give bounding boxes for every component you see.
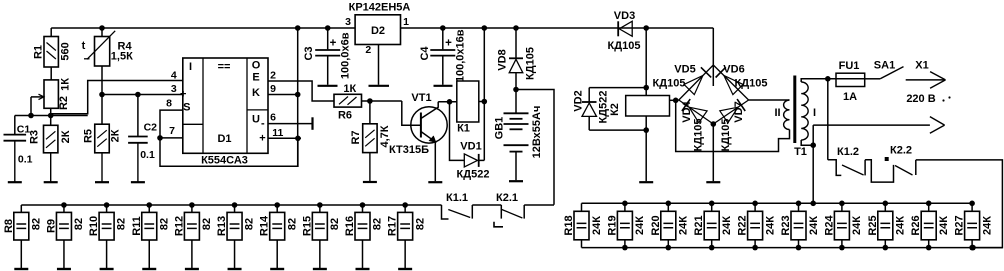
node R22 top junction bbox=[752, 201, 758, 207]
wire R2/R3 node horizontal bbox=[15, 115, 88, 117]
svg-text:К554СА3: К554СА3 bbox=[201, 155, 248, 167]
switch SA1 bbox=[880, 67, 903, 79]
svg-text:24К: 24К bbox=[851, 216, 863, 235]
svg-text:0.1: 0.1 bbox=[18, 154, 33, 166]
node R4/R5 junction bbox=[99, 92, 105, 98]
transformer T1 winding II bbox=[784, 100, 790, 130]
node R19 bottom junction bbox=[622, 245, 628, 251]
node R9 top junction bbox=[61, 202, 67, 208]
svg-text:2К: 2К bbox=[60, 130, 72, 143]
resistor R19 bbox=[624, 203, 626, 211]
transformer T1 core bbox=[793, 76, 796, 144]
ground C1 bbox=[14, 142, 16, 183]
svg-text:1А: 1А bbox=[843, 91, 857, 103]
node R27 bottom junction bbox=[969, 245, 975, 251]
wire top bus D2-to-VD3 segment bbox=[401, 27, 619, 29]
svg-text:24К: 24К bbox=[721, 216, 733, 235]
node R24 bottom junction bbox=[839, 245, 845, 251]
resistor R11 bbox=[148, 205, 150, 212]
svg-text:КД105: КД105 bbox=[608, 40, 641, 52]
svg-text:24К: 24К bbox=[591, 216, 603, 235]
wire VT1 emitter down bbox=[434, 142, 436, 181]
svg-text:VD7: VD7 bbox=[733, 101, 745, 122]
ground R9 bbox=[57, 268, 71, 270]
svg-text:КД105: КД105 bbox=[524, 47, 536, 80]
wire pin 2 E to R6 bbox=[268, 81, 334, 101]
wire R2 bottom to R3 bbox=[50, 108, 52, 125]
svg-text:K: K bbox=[252, 87, 260, 99]
svg-text:К1.2: К1.2 bbox=[837, 146, 859, 158]
resistor R21 bbox=[711, 203, 713, 211]
capacitor C2 bbox=[137, 95, 139, 136]
svg-text:3: 3 bbox=[171, 83, 177, 95]
transistor VT1 collector bbox=[421, 102, 438, 119]
node R20 bottom junction bbox=[666, 245, 672, 251]
transistor VT1 emitter bbox=[421, 132, 435, 142]
node VD2 bottom junction bbox=[643, 127, 649, 133]
node R16 top junction bbox=[360, 202, 366, 208]
resistor R14 bbox=[276, 205, 278, 212]
svg-text:7: 7 bbox=[169, 125, 175, 137]
resistor R25 bbox=[884, 203, 886, 211]
svg-text:8: 8 bbox=[166, 98, 172, 110]
svg-text:100,0х16в: 100,0х16в bbox=[454, 29, 466, 82]
svg-text:КТ315Б: КТ315Б bbox=[389, 144, 429, 156]
svg-text:U: U bbox=[252, 114, 260, 126]
node R23 top junction bbox=[796, 201, 802, 207]
svg-text:+: + bbox=[330, 37, 337, 49]
wire pin 9 K bbox=[268, 94, 298, 96]
wire load bank top bus bbox=[582, 202, 974, 204]
wire K2 to bridge left bbox=[670, 99, 679, 101]
node VD2 top junction bbox=[643, 85, 649, 91]
svg-text:GB1: GB1 bbox=[493, 117, 505, 140]
ground R13 bbox=[228, 268, 242, 270]
fuse FU1 bbox=[836, 73, 865, 86]
wire VD3 out to K2 down bbox=[645, 28, 647, 96]
ground GB1 bbox=[509, 180, 523, 182]
svg-text:+: + bbox=[180, 89, 186, 101]
wire K1 right bbox=[479, 101, 485, 103]
wire bridge top riser bbox=[712, 28, 714, 86]
svg-text:C2: C2 bbox=[144, 122, 158, 134]
svg-text:==: == bbox=[218, 61, 231, 73]
svg-text:82: 82 bbox=[158, 218, 170, 230]
ground pin 6 bar bbox=[311, 117, 313, 130]
connector X1 upper arrow bbox=[906, 79, 945, 81]
ground C2 bbox=[137, 144, 139, 183]
ground C3 bbox=[327, 56, 329, 85]
svg-text:220 В: 220 В bbox=[906, 93, 935, 105]
ground R7 bbox=[369, 153, 371, 182]
svg-text:O: O bbox=[252, 60, 261, 72]
svg-text:R11: R11 bbox=[131, 216, 143, 236]
svg-text:C3: C3 bbox=[303, 46, 315, 60]
svg-text:К2: К2 bbox=[609, 103, 621, 116]
svg-text:R13: R13 bbox=[216, 216, 228, 236]
wire D2 pin 2 bbox=[378, 45, 380, 85]
svg-text:R17: R17 bbox=[387, 216, 399, 236]
resistor R13 bbox=[234, 205, 236, 212]
wire GB1 to contacts riser bbox=[516, 90, 554, 205]
wire pin 6 bbox=[268, 123, 313, 125]
wire R4 to node bbox=[101, 66, 103, 95]
wire VD2 bottom bbox=[589, 129, 646, 131]
ground bridge bbox=[706, 181, 720, 183]
ground R3 bbox=[50, 153, 52, 182]
contact K1.2 bbox=[828, 160, 842, 176]
wire R4R5 node down bbox=[101, 95, 103, 125]
svg-text:R8: R8 bbox=[3, 219, 15, 233]
wire R6 to base step bbox=[362, 100, 402, 102]
node R21 top junction bbox=[709, 201, 715, 207]
op-amp comparator D1 body bbox=[183, 58, 268, 153]
wire load bank bottom bus bbox=[582, 247, 1003, 249]
svg-text:R12: R12 bbox=[173, 216, 185, 236]
svg-text:4: 4 bbox=[171, 70, 177, 82]
node R14 top junction bbox=[274, 202, 280, 208]
node VD1 top junction bbox=[447, 99, 453, 105]
node R2 wiper junction bbox=[28, 113, 34, 119]
node R12 top junction bbox=[189, 202, 195, 208]
svg-text:R14: R14 bbox=[259, 215, 271, 236]
svg-text:R7: R7 bbox=[350, 130, 362, 144]
wire winding I bottom lead bbox=[801, 140, 813, 145]
resistor R22 bbox=[754, 203, 756, 211]
node supply vertical junction bbox=[295, 25, 301, 31]
svg-text:24К: 24К bbox=[808, 216, 820, 235]
svg-text:КР142ЕН5А: КР142ЕН5А bbox=[349, 2, 411, 14]
resistor R26 bbox=[928, 203, 930, 211]
resistor R27 bbox=[971, 203, 973, 211]
diode VD4 bbox=[679, 100, 714, 124]
svg-text:КД105: КД105 bbox=[692, 119, 704, 152]
svg-text:1: 1 bbox=[403, 16, 409, 28]
connector X1 lower arrow bbox=[930, 117, 945, 126]
node GB1 top junction bbox=[513, 87, 519, 93]
wire pin 11 bbox=[268, 137, 301, 139]
svg-text:-: - bbox=[261, 118, 265, 130]
ground R16 bbox=[356, 268, 370, 270]
ground R14 bbox=[270, 268, 284, 270]
node pin 9 junction bbox=[295, 92, 301, 98]
node FU1 junction bbox=[825, 76, 831, 82]
svg-text:24К: 24К bbox=[764, 216, 776, 235]
resistor R16 bbox=[362, 205, 364, 212]
svg-text:24К: 24К bbox=[938, 216, 950, 235]
node load bank riser junction bbox=[810, 201, 816, 207]
svg-text:2: 2 bbox=[270, 70, 276, 82]
wire discharge bank bus bbox=[21, 204, 441, 206]
wire pin 8 bbox=[160, 110, 183, 138]
resistor R12 bbox=[191, 205, 193, 212]
resistor R6 bbox=[334, 94, 362, 107]
node R27 bottom junction bbox=[970, 245, 976, 251]
node R10 top junction bbox=[104, 202, 110, 208]
svg-text:R21: R21 bbox=[693, 215, 705, 235]
svg-text:R18: R18 bbox=[563, 215, 575, 235]
node pin 11 junction bbox=[295, 136, 301, 142]
svg-text:X1: X1 bbox=[915, 60, 928, 72]
contact K2.1 bbox=[500, 205, 502, 219]
node K2/VD3 junction bbox=[643, 25, 649, 31]
svg-text:FU1: FU1 bbox=[839, 60, 860, 72]
wire K2.2 to load bank bbox=[916, 160, 1003, 248]
relay coil K2 bbox=[626, 96, 670, 117]
ground D2 pin 2 bbox=[369, 85, 390, 87]
resistor R17 bbox=[404, 205, 406, 212]
svg-text:82: 82 bbox=[372, 218, 384, 230]
transistor VT1 bbox=[411, 107, 447, 143]
svg-text:82: 82 bbox=[30, 218, 42, 230]
svg-text:82: 82 bbox=[116, 218, 128, 230]
svg-text:100,0х6в: 100,0х6в bbox=[339, 32, 351, 79]
svg-text:КД105: КД105 bbox=[735, 78, 768, 90]
svg-text:12Вх55Ач: 12Вх55Ач bbox=[531, 106, 543, 159]
wire top +12V bus left segment bbox=[51, 27, 355, 29]
svg-text:К2.2: К2.2 bbox=[890, 145, 912, 157]
ground R15 bbox=[313, 268, 327, 270]
diode VD5 bbox=[679, 65, 714, 100]
svg-text:9: 9 bbox=[270, 83, 276, 95]
svg-text:2: 2 bbox=[365, 44, 371, 56]
svg-text:К1: К1 bbox=[457, 123, 470, 135]
svg-text:S: S bbox=[183, 102, 190, 114]
svg-text:R24: R24 bbox=[823, 215, 835, 236]
svg-text:R20: R20 bbox=[650, 215, 662, 235]
op-amp D1 right cell divider bbox=[247, 109, 268, 111]
resistor R18 bbox=[581, 203, 583, 211]
svg-text:2К: 2К bbox=[109, 129, 121, 142]
svg-text:R5: R5 bbox=[83, 129, 95, 143]
wire FU1 to SA1 bbox=[865, 78, 881, 80]
svg-text:1К: 1К bbox=[343, 83, 356, 95]
svg-text:82: 82 bbox=[329, 218, 341, 230]
wire bridge left to winding II bottom bbox=[676, 100, 790, 151]
node R13 top junction bbox=[232, 202, 238, 208]
svg-text:24К: 24К bbox=[981, 216, 993, 235]
svg-text:КД105: КД105 bbox=[720, 119, 732, 152]
wire K1.1 to K2.1 bbox=[472, 204, 501, 206]
svg-text:VD8: VD8 bbox=[496, 49, 508, 70]
node R6/R7 junction bbox=[367, 98, 373, 104]
resistor R20 bbox=[667, 203, 669, 211]
relay coil K1 bbox=[457, 81, 479, 122]
svg-text:82: 82 bbox=[414, 218, 426, 230]
node R4 top junction bbox=[99, 25, 105, 31]
wire top bus VD3-to-bridge segment bbox=[632, 27, 713, 29]
svg-text:R19: R19 bbox=[606, 215, 618, 235]
wire supply vertical E bbox=[297, 28, 299, 166]
wire VD2 top bbox=[589, 87, 646, 89]
svg-text:82: 82 bbox=[201, 218, 213, 230]
diode VD7 bbox=[713, 100, 748, 124]
resistor R10 bbox=[106, 205, 108, 212]
wire D1 common rail under label bbox=[160, 138, 298, 166]
node R17 top junction bbox=[402, 202, 408, 208]
wire R2 wiper to node bbox=[30, 97, 32, 116]
node R26 bottom junction bbox=[926, 245, 932, 251]
node R11 top junction bbox=[146, 202, 152, 208]
wire R1 to R2 bbox=[50, 67, 52, 80]
svg-text:R27: R27 bbox=[954, 215, 966, 235]
ground R17 bbox=[398, 268, 412, 270]
ground VT1 emitter bbox=[428, 181, 442, 183]
resistor R23 bbox=[798, 203, 800, 211]
svg-text:R22: R22 bbox=[737, 215, 749, 235]
resistor R7 bbox=[369, 101, 371, 124]
svg-text:1К: 1К bbox=[59, 78, 71, 91]
svg-text:D2: D2 bbox=[371, 25, 385, 37]
svg-text:I: I bbox=[813, 107, 816, 119]
svg-text:3: 3 bbox=[345, 16, 351, 28]
svg-text:82: 82 bbox=[244, 218, 256, 230]
svg-text:VD5: VD5 bbox=[674, 64, 695, 76]
node R19 top junction bbox=[622, 201, 628, 207]
svg-text:24К: 24К bbox=[895, 216, 907, 235]
svg-text:SA1: SA1 bbox=[874, 60, 895, 72]
svg-text:Т1: Т1 bbox=[794, 146, 807, 158]
svg-text:82: 82 bbox=[73, 218, 85, 230]
svg-text:R25: R25 bbox=[867, 215, 879, 235]
wire T1 to load bank riser bbox=[812, 145, 814, 203]
wire pin3 net bbox=[102, 94, 183, 96]
diode VD1 bbox=[450, 102, 465, 161]
capacitor C3 bbox=[327, 28, 329, 49]
op-amp D1 right divider bbox=[246, 58, 248, 153]
wire base step down bbox=[402, 101, 421, 125]
svg-text:R1: R1 bbox=[32, 45, 44, 59]
diode VD2 bbox=[588, 88, 590, 102]
ground R12 bbox=[185, 268, 199, 270]
wire lower mains lead bbox=[812, 125, 814, 145]
node K1 junction bbox=[482, 25, 488, 31]
node R26 top junction bbox=[926, 201, 932, 207]
node C3 junction bbox=[325, 25, 331, 31]
resistor R3 bbox=[44, 125, 58, 153]
op-amp D1 left cell divider bbox=[183, 123, 203, 125]
resistor R9 bbox=[63, 205, 65, 212]
contact K2.2 bbox=[895, 166, 913, 176]
diode VD3 bbox=[618, 27, 632, 29]
wire K1.2 to K2.2 link bbox=[865, 160, 893, 182]
svg-text:R23: R23 bbox=[780, 215, 792, 235]
resistor R8 bbox=[20, 205, 22, 212]
ground C4 bbox=[442, 56, 444, 85]
svg-text:1,5К: 1,5К bbox=[111, 51, 133, 63]
resistor R24 bbox=[841, 203, 843, 211]
svg-text:R10: R10 bbox=[88, 216, 100, 236]
node bridge left branch bbox=[673, 98, 679, 104]
svg-text:R26: R26 bbox=[910, 215, 922, 235]
svg-text:II: II bbox=[774, 107, 780, 119]
label gamma mark bbox=[494, 222, 503, 227]
svg-text:D1: D1 bbox=[217, 133, 231, 145]
ground K2 bbox=[639, 181, 653, 183]
voltage regulator D2 bbox=[355, 15, 400, 45]
ground R8 bbox=[14, 268, 28, 270]
node R2 bottom junction bbox=[48, 113, 54, 119]
svg-text:t: t bbox=[82, 40, 86, 52]
svg-text:I: I bbox=[189, 61, 192, 73]
svg-text:VD2: VD2 bbox=[572, 90, 584, 111]
transformer T1 winding I bbox=[801, 82, 808, 140]
svg-text:К2.1: К2.1 bbox=[496, 192, 518, 204]
node K2.2 mark bbox=[885, 157, 889, 161]
node R25 bottom junction bbox=[883, 245, 889, 251]
svg-text:VD1: VD1 bbox=[460, 141, 481, 153]
svg-text:+: + bbox=[445, 37, 452, 49]
node C4 junction bbox=[440, 25, 446, 31]
wire winding I top lead bbox=[801, 79, 836, 82]
node pin7/8 junction bbox=[157, 135, 163, 141]
node C2 top junction bbox=[135, 92, 141, 98]
svg-text:КД105: КД105 bbox=[653, 78, 686, 90]
svg-text:24К: 24К bbox=[634, 216, 646, 235]
svg-text:R15: R15 bbox=[301, 216, 313, 236]
wire K2.1 to riser bbox=[524, 204, 554, 206]
node R27 top junction bbox=[969, 201, 975, 207]
diode VD8 bbox=[515, 28, 517, 58]
node R23 bottom junction bbox=[796, 245, 802, 251]
svg-text:C1: C1 bbox=[17, 124, 31, 136]
svg-text:КД522: КД522 bbox=[597, 91, 609, 124]
wire bridge bottom down bbox=[712, 124, 714, 181]
ground R5 bbox=[101, 153, 103, 182]
contact K1.1 bbox=[442, 205, 449, 219]
ground R10 bbox=[100, 268, 114, 270]
svg-text:+: + bbox=[259, 133, 265, 145]
svg-text:11: 11 bbox=[272, 127, 283, 139]
wire collector to K1 bbox=[438, 101, 457, 103]
svg-text:24К: 24К bbox=[678, 216, 690, 235]
svg-text:E: E bbox=[252, 71, 259, 83]
resistor R15 bbox=[319, 205, 321, 212]
capacitor C1 bbox=[14, 116, 16, 135]
svg-text:560: 560 bbox=[59, 42, 71, 60]
resistor R1 bbox=[50, 28, 52, 37]
op-amp D1 left divider bbox=[202, 58, 204, 153]
node K1 right junction bbox=[482, 99, 488, 105]
svg-text:VD3: VD3 bbox=[614, 10, 635, 22]
wire R2 wiper arrow bbox=[31, 96, 43, 98]
resistor R5 bbox=[95, 124, 110, 153]
svg-text:C4: C4 bbox=[419, 46, 431, 61]
svg-text:6: 6 bbox=[270, 111, 276, 123]
svg-text:82: 82 bbox=[286, 218, 298, 230]
battery GB1 bbox=[515, 90, 517, 113]
wire riser to K1.2 bbox=[827, 79, 829, 160]
wire K2 bottom down bbox=[645, 116, 647, 181]
capacitor C4 bbox=[442, 28, 444, 49]
svg-text:VT1: VT1 bbox=[411, 92, 431, 104]
node T1 bottom junction bbox=[810, 142, 816, 148]
wire bridge right to winding II top bbox=[749, 99, 790, 101]
node R20 top junction bbox=[666, 201, 672, 207]
svg-text:R2: R2 bbox=[58, 96, 70, 110]
svg-text:0.1: 0.1 bbox=[140, 149, 155, 161]
node VD8 junction bbox=[513, 25, 519, 31]
node R22 bottom junction bbox=[752, 245, 758, 251]
node bridge bottom junction bbox=[711, 121, 717, 127]
svg-text:КД522: КД522 bbox=[457, 169, 490, 181]
potentiometer R2 bbox=[44, 80, 58, 108]
wire K1 supply vertical bbox=[483, 28, 485, 160]
wire pin4 net bbox=[51, 81, 183, 114]
svg-text:R6: R6 bbox=[338, 110, 352, 122]
svg-text:К1.1: К1.1 bbox=[446, 192, 468, 204]
thermistor R4 bbox=[101, 28, 103, 37]
